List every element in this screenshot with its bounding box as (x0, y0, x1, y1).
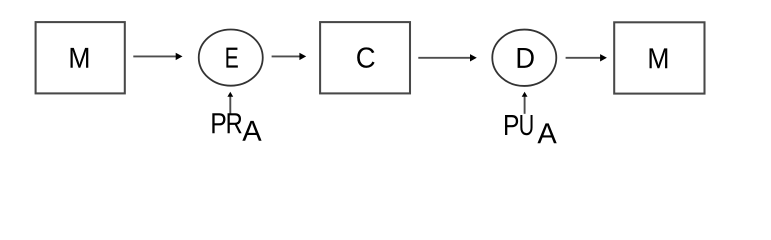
label PU subscript A (537, 123, 556, 143)
wire arrow E to C (272, 53, 307, 60)
key input arrow to E (227, 92, 233, 114)
wire arrow C to D (418, 54, 477, 61)
box M2 (614, 22, 704, 93)
label PR (212, 113, 241, 133)
label E text (226, 48, 237, 68)
label C text (357, 47, 374, 68)
label M2 text (650, 48, 668, 68)
label D text (518, 48, 534, 68)
label PU (505, 115, 533, 135)
box C (320, 22, 410, 93)
label M1 text (71, 48, 89, 68)
key input arrow to D (522, 92, 528, 114)
label PR subscript A (242, 121, 261, 141)
node E (encrypt) (199, 29, 263, 85)
wire arrow D to M2 (566, 54, 607, 61)
node D (decrypt) (492, 30, 556, 86)
wire arrow M1 to E (133, 53, 182, 60)
box M1 (36, 22, 125, 93)
